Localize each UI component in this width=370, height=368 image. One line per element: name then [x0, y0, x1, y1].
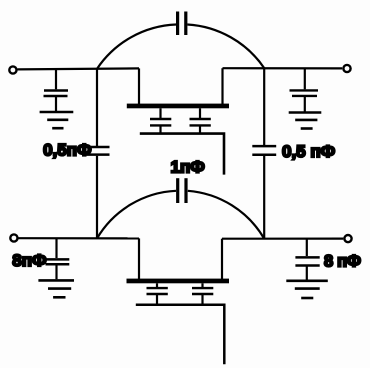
wire: bottom arc left half — [97, 191, 176, 239]
svg-text:1пФ: 1пФ — [171, 158, 205, 177]
quartz resonator ZQ1: crystal plate — [127, 104, 229, 109]
wire: top arc right half — [187, 25, 264, 69]
wire: bottom arc right half — [188, 191, 264, 239]
wire: stub from bottom rail down to quartz ZQ2 left end — [138, 238, 140, 280]
capacitor C 8пФ shunt, bottom-left — [46, 238, 70, 279]
terminal: output top-right — [343, 65, 350, 72]
wire: right vertical branch upper part — [263, 68, 265, 145]
svg-text:8 пФ: 8 пФ — [324, 253, 361, 271]
svg-text:8пФ: 8пФ — [12, 251, 46, 270]
capacitor C 1пФ (in bottom arc) — [178, 178, 186, 203]
terminal: input top-left — [9, 66, 16, 73]
ground: top-right — [289, 113, 322, 129]
wire: stub from bottom rail down to quartz ZQ2 right end — [221, 239, 223, 280]
quartz resonator ZQ2: right electrode pair — [192, 283, 213, 304]
terminal: output bottom-right — [344, 235, 351, 242]
capacitor C 0,5пФ right (series) — [252, 146, 276, 155]
wire: bottom rail right segment — [222, 238, 343, 240]
capacitor: shunt to ground, top-right — [290, 68, 319, 111]
wire: left vertical branch upper part (node A down to C 0,5pF) — [96, 69, 98, 146]
wire: ZQ1 common electrode bus with hanging stub — [140, 134, 224, 175]
wire: top rail right segment — [223, 67, 343, 69]
wire: top arc left half (node A to top coupling capacitor) — [97, 25, 176, 69]
wire: stub from top rail down to quartz ZQ1 right end — [221, 68, 223, 105]
quartz resonator ZQ2: left electrode pair — [147, 283, 168, 304]
wire: right vertical branch lower part — [263, 156, 265, 239]
capacitor: shunt to ground, top-left — [44, 69, 69, 111]
wire: stub from top rail down to quartz ZQ1 left end — [138, 68, 140, 105]
ground: bottom-left — [38, 280, 74, 297]
svg-text:0,5 пФ: 0,5 пФ — [282, 142, 335, 161]
svg-text:0,5пФ: 0,5пФ — [43, 141, 91, 160]
wire: bottom rail left segment — [19, 237, 140, 239]
ground: bottom-right — [286, 281, 328, 298]
capacitor: top coupling (in arc) — [178, 12, 186, 36]
quartz resonator ZQ1: left electrode pair — [150, 108, 171, 133]
wire: left vertical branch lower part — [96, 156, 98, 239]
ground: top-left — [40, 112, 74, 128]
capacitor C 0,5пФ left (series) — [86, 147, 110, 155]
wire: ZQ2 common electrode bus going down off-page — [136, 305, 225, 365]
quartz resonator ZQ1: right electrode pair — [190, 108, 211, 133]
quartz resonator ZQ2: crystal plate — [127, 279, 230, 284]
terminal: input bottom-left — [10, 234, 17, 241]
wire: top rail left segment — [17, 68, 139, 69]
capacitor C 8пФ shunt, bottom-right — [295, 239, 319, 280]
